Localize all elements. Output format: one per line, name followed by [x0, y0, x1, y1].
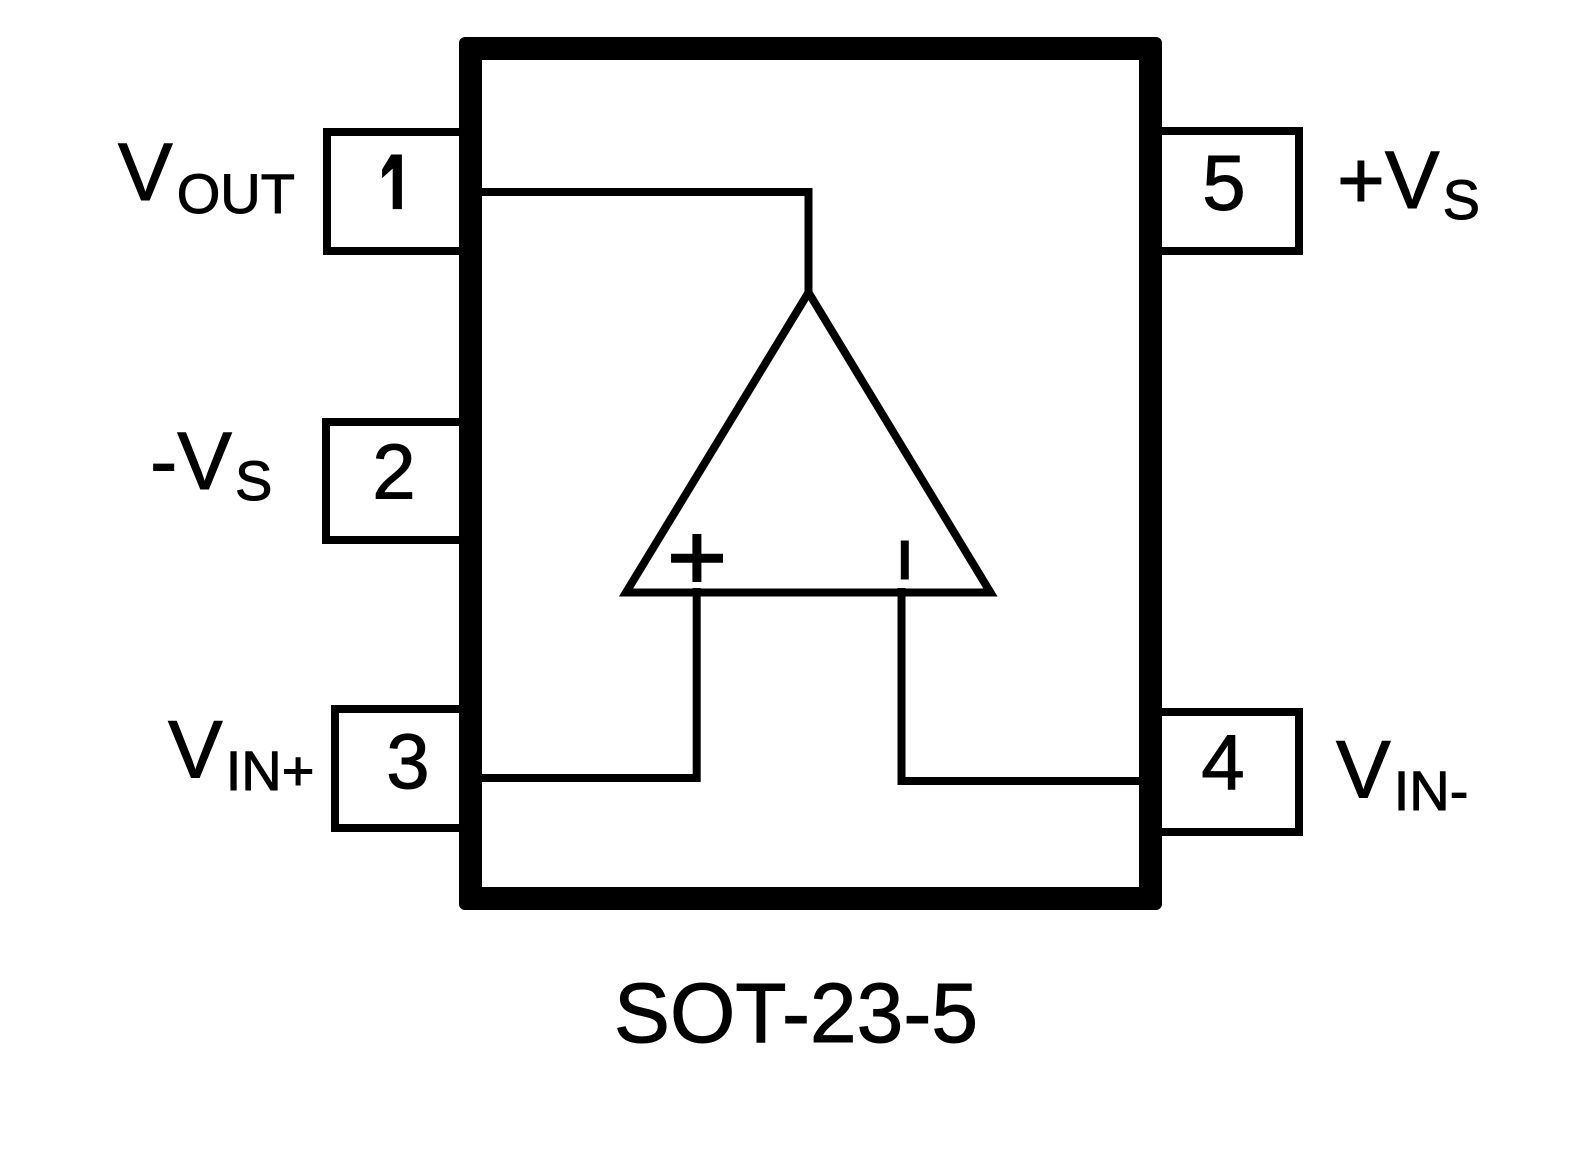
pin 2 box	[326, 422, 471, 540]
pin 1 box	[327, 132, 471, 251]
wire pin1 to op-amp output	[460, 192, 809, 296]
pin 3 box	[335, 709, 471, 828]
op-amp U1 triangle	[626, 293, 991, 593]
pin 1 number	[383, 155, 402, 209]
op-amp - input marker	[901, 541, 909, 580]
svg-text:5: 5	[1202, 139, 1245, 227]
wire pin3 to op-amp noninverting input	[460, 588, 697, 778]
op-amp + input marker	[671, 534, 723, 582]
svg-text:SOT-23-5: SOT-23-5	[614, 966, 978, 1060]
IC body SOT-23-5 package outline	[459, 37, 1162, 910]
svg-text:3: 3	[386, 717, 429, 805]
pin 4 box	[1150, 712, 1299, 832]
pin 5 box	[1150, 131, 1299, 251]
svg-text:4: 4	[1201, 718, 1244, 806]
wire pin4 to op-amp inverting input	[902, 588, 1152, 781]
svg-text:2: 2	[372, 428, 415, 516]
